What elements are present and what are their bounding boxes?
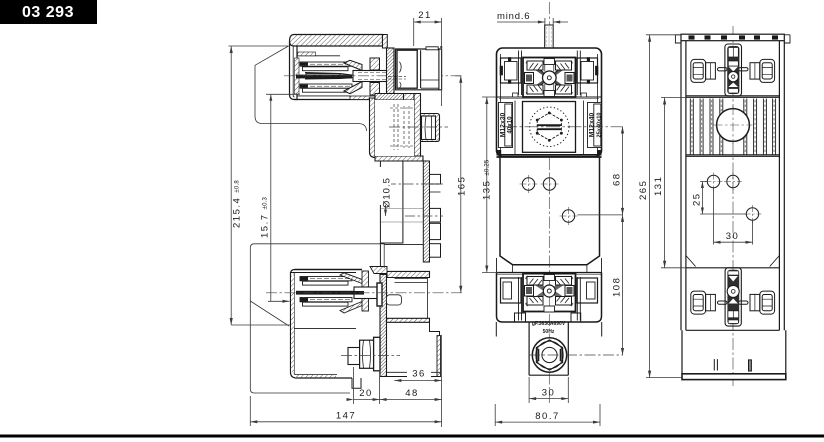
svg-text:80.7: 80.7: [535, 411, 560, 422]
nut / conductor stack: [397, 50, 417, 88]
interior cavity + thread dashes: [375, 100, 414, 156]
svg-text:M12x30: M12x30: [500, 112, 507, 137]
axis bar: [296, 291, 356, 295]
hidden clamp screw: [387, 295, 402, 305]
upper center element: [725, 44, 742, 96]
30: [714, 188, 753, 245]
label box texts: [500, 112, 603, 137]
phantom fuse-cover bottom outline: [250, 244, 423, 393]
svg-text:25x40x10: 25x40x10: [597, 113, 603, 138]
dim 15.7: [266, 93, 300, 95]
svg-text:03 293: 03 293: [22, 4, 74, 21]
clamp nut pocket: [421, 114, 440, 142]
svg-text:265: 265: [638, 180, 649, 200]
svg-text:40x10: 40x10: [507, 116, 514, 134]
dim texts left view: [232, 10, 468, 422]
svg-text:147: 147: [336, 411, 356, 422]
dim 36: [394, 380, 441, 382]
hatched cylinder walls: [370, 58, 380, 70]
face bottom with chamfers: [686, 256, 780, 267]
bottom axis centerline: [266, 292, 462, 294]
notched separation line: [497, 96, 602, 98]
svg-text:20: 20: [359, 388, 373, 399]
dim 165: [455, 75, 461, 77]
window frame rect: [523, 102, 576, 153]
svg-text:M12x40: M12x40: [589, 112, 596, 137]
lower skirt: [682, 330, 786, 374]
face holes: [705, 173, 762, 224]
svg-text:30: 30: [542, 388, 556, 399]
centerline: [732, 26, 734, 386]
dim O10.5: [385, 184, 387, 216]
265: [646, 35, 682, 378]
mid shelf and lower wall: [370, 267, 441, 377]
center contact block: [523, 58, 576, 98]
dim 147: [250, 421, 441, 423]
face holes: [520, 175, 578, 225]
top axis centerline: [284, 75, 462, 77]
blade: [354, 287, 377, 299]
panel wall top (hatched): [387, 48, 395, 94]
bottom neck + bolt: [529, 322, 568, 375]
middle view dimensions: [482, 18, 624, 426]
lower compartment: [691, 291, 775, 314]
68 / 108 line: [578, 214, 623, 216]
left wall: [291, 270, 297, 379]
svg-text:36: 36: [412, 369, 426, 380]
inner shelf: [294, 328, 356, 330]
svg-text:165: 165: [457, 176, 468, 196]
axis of clamp bolt: [389, 126, 448, 128]
top housing cap hatched band: [290, 35, 383, 47]
carrier wall: [362, 271, 369, 311]
svg-text:mind.6: mind.6: [497, 11, 530, 22]
funnel: [340, 273, 362, 284]
svg-text:21: 21: [418, 10, 432, 21]
compartment bottom lines: [686, 95, 780, 97]
svg-text:30: 30: [726, 231, 740, 242]
washer plate: [377, 283, 382, 306]
slots: [519, 51, 581, 96]
middle fat fingers into funnel: [296, 73, 356, 80]
svg-text:gF.3630A690V: gF.3630A690V: [532, 321, 566, 327]
mind.6: [497, 21, 568, 23]
131: [661, 98, 686, 268]
cap right end block: [383, 35, 388, 49]
right view dimensions: [646, 35, 753, 378]
top band: [295, 269, 363, 271]
bottom mounting bolt (horizontal): [341, 337, 400, 371]
svg-text:131: 131: [653, 176, 664, 196]
side rails: [681, 41, 686, 331]
fingers lower: [300, 298, 352, 302]
80.7: [495, 404, 600, 426]
cap bottom double line: [497, 154, 602, 156]
lower body of top assembly: [370, 94, 449, 162]
top stud: [545, 25, 554, 48]
svg-text:108: 108: [612, 277, 623, 297]
tiny rating text: [532, 321, 566, 335]
svg-text:68: 68: [612, 172, 623, 186]
stud through wall: [353, 71, 391, 82]
panel wall mid + tabs: [386, 161, 443, 262]
X contact spring: [525, 58, 575, 97]
bolt axis: [341, 355, 400, 357]
ribs: [690, 99, 775, 156]
funnel taper: [344, 60, 362, 93]
terminal block: [396, 49, 442, 90]
30 bottom: [529, 377, 568, 403]
svg-text:135 ±0.25: 135 ±0.25: [482, 159, 493, 200]
contact finger bars upper: [300, 62, 352, 71]
bottom housing (fuse contact): [266, 270, 462, 389]
135: [482, 97, 499, 273]
25: [700, 182, 746, 215]
right wing: [577, 58, 598, 83]
svg-text:25: 25: [692, 192, 703, 206]
svg-text:215.4 ±0.8: 215.4 ±0.8: [232, 180, 243, 228]
dim 20 / 48: [354, 399, 442, 401]
phantom fuse-cover top outline: [255, 46, 367, 131]
svg-text:Ø10.5: Ø10.5: [382, 177, 393, 208]
bottom wall: [297, 377, 353, 379]
upper compartment knobs: [691, 59, 775, 82]
cap outline: [497, 48, 602, 157]
dim 21 top: [414, 21, 442, 23]
stud thread dashes: [388, 76, 406, 79]
svg-text:15.7 ±0.3: 15.7 ±0.3: [260, 196, 271, 238]
hole centerlines: [386, 183, 443, 185]
inner top shelf: [297, 55, 340, 57]
left wing: [501, 58, 522, 83]
fingers upper: [300, 277, 352, 281]
housing bottom band: [295, 99, 388, 101]
dim 215.4: [229, 45, 289, 47]
title block: [0, 0, 97, 24]
base plate: [682, 374, 786, 380]
contact finger bars lower: [300, 84, 352, 92]
label boxes: [499, 103, 602, 148]
bottom border: [0, 435, 824, 438]
big circle: [717, 109, 750, 142]
vertical centerline: [548, 2, 550, 403]
bottom clip section: [496, 273, 601, 337]
cap inner side lines: [501, 54, 598, 150]
Z-bracket hidden profile: [380, 161, 423, 268]
housing left wall: [290, 42, 298, 100]
svg-text:50Hz: 50Hz: [543, 329, 555, 335]
svg-text:48: 48: [405, 388, 419, 399]
face body: [500, 158, 600, 265]
ribs bottom line: [686, 154, 780, 156]
top bar with slots: [681, 34, 784, 41]
dashed window circle + hex: [530, 107, 569, 146]
lower center element: [725, 268, 741, 326]
